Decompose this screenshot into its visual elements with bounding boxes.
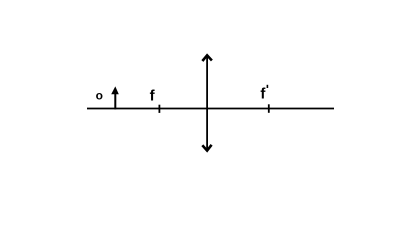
lens L1 (double-headed vertical arrow)	[203, 55, 211, 150]
svg-text:f: f	[150, 88, 156, 105]
optical axis wire	[87, 108, 334, 110]
focal tick f' (right)	[268, 104, 270, 113]
svg-text:f: f	[260, 86, 266, 103]
svg-text:o: o	[96, 89, 103, 103]
prime mark of f'	[267, 85, 269, 88]
object arrow O	[111, 86, 119, 109]
focal tick f (left)	[158, 105, 160, 113]
